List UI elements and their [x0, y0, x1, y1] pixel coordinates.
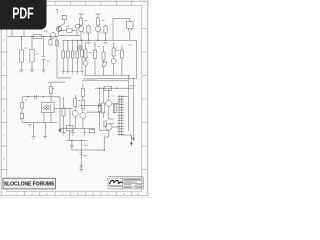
wire: main input bus	[8, 36, 51, 38]
resistor R15	[120, 46, 123, 75]
ground (harness 2)	[66, 72, 69, 75]
power flag (above stage 1)	[56, 10, 58, 14]
frame outer border	[1, 1, 147, 195]
diode D4 (harness line 4)	[76, 42, 79, 72]
svg-text:SLOCLONE FORUMS: SLOCLONE FORUMS	[4, 182, 55, 188]
wire: upper coupling run	[59, 31, 78, 36]
title block text lines	[110, 179, 143, 188]
resistor R23 (right of tubes)	[113, 105, 116, 113]
capacitor C7 (tick under bottom run)	[28, 125, 31, 126]
capacitor C9 (on x81 drop)	[80, 153, 83, 155]
ground (x60 bottom arrow)	[59, 130, 62, 133]
capacitor C5 (below h-run 1)	[70, 145, 73, 147]
node A (junction dots on input bus)	[21, 36, 44, 37]
wire: top rail stub branch1	[80, 14, 82, 18]
wire: right-low header	[95, 87, 134, 89]
ground (harness 4)	[76, 72, 79, 75]
frame zone ticks right	[142, 29, 148, 170]
wire: main bus continues	[50, 36, 80, 37]
svg-text:PDF: PDF	[12, 6, 34, 23]
frame zone ticks bottom	[25, 192, 132, 196]
tube V3 (power triode upper)	[106, 88, 112, 119]
label row (faint pot names)	[48, 78, 135, 86]
resistor R10 (harness line 5)	[81, 42, 84, 72]
relay K1 (box with coil circle)	[42, 103, 55, 113]
wire: inverter tail drop	[104, 137, 109, 150]
tube V4 (power triode lower)	[106, 124, 112, 137]
node E (junctions lower h-run)	[71, 140, 82, 141]
resistor R20 (lower center feed)	[74, 95, 77, 111]
resistor R25 (inverter tail)	[104, 121, 107, 127]
wire: stage-2 bottom bus	[76, 31, 137, 79]
capacitor C3 (small box above right)	[76, 25, 80, 28]
capacitor C8 (box on lower bus)	[67, 125, 74, 140]
resistor R22 (left of tubes)	[102, 88, 105, 118]
resistor R4 (inline on upper run)	[67, 29, 73, 33]
capacitor C4 (on low-left header)	[35, 95, 37, 99]
resistor R6 (vertical, branch2)	[87, 25, 90, 41]
ground (harness 3)	[71, 72, 74, 75]
node G (tail junction)	[104, 149, 105, 150]
frame zone ticks top	[25, 1, 132, 5]
ground (under R2)	[19, 70, 24, 73]
wire: harness top header	[63, 40, 82, 42]
ground (drop 2)	[43, 137, 47, 140]
ground (harness 1)	[62, 72, 65, 75]
wire: top rail stub branch3	[97, 14, 99, 18]
resistor R9 (small box top of harness column)	[56, 40, 59, 46]
diode D3 (harness line 3)	[71, 42, 74, 72]
resistor R1 (inline on input bus)	[34, 35, 42, 39]
wire: section header line	[82, 80, 129, 82]
resistor R8 (vertical, branch4)	[104, 25, 107, 41]
wire: transformer secondary top	[122, 95, 129, 97]
wire: top rail 2	[96, 13, 101, 15]
transistor Q3	[78, 26, 84, 40]
resistor R18 (feed into relay box)	[50, 83, 53, 103]
transistor Q6	[111, 59, 116, 64]
wire: lower center column 2	[69, 110, 71, 129]
ground (lower bus 3)	[83, 133, 87, 136]
power flag (R12 top)	[94, 43, 96, 44]
ground (under R3)	[30, 70, 35, 73]
node D (junction right-low)	[99, 88, 117, 89]
wire: right long drop	[133, 88, 135, 138]
resistor R7 (vertical)	[96, 18, 99, 27]
capacitor C2 (top of riser)	[62, 16, 67, 20]
capacitor C11 (small box below-left of Q2)	[49, 37, 52, 46]
wire: stub below lower bus 2	[72, 129, 74, 133]
resistor R21	[81, 96, 84, 112]
connector J1 (top-right small box)	[113, 19, 133, 41]
node C (junctions low-left)	[27, 96, 43, 97]
power flag (R14 top)	[113, 43, 115, 44]
wire: mid bottom bus 2	[88, 78, 137, 80]
svg-text:E: E	[3, 109, 5, 113]
transistor Q4	[95, 26, 101, 40]
wire: mid bottom bus 1	[84, 74, 130, 76]
wire: riser under badge 1	[11, 30, 13, 37]
wire: riser under badge 2	[23, 30, 25, 37]
transistor Q5	[83, 61, 88, 66]
sheet label box (bottom-left)	[3, 178, 55, 189]
wire: drop below run 1	[33, 122, 35, 136]
wire: transformer secondary bottom	[122, 135, 132, 143]
svg-text:B: B	[3, 38, 5, 42]
frame zone digits bottom	[15, 192, 139, 196]
wire: inverter bottom link	[100, 129, 109, 131]
svg-text:C: C	[3, 62, 5, 66]
frame zone letters left	[3, 14, 5, 184]
tube V1 (triode a)	[72, 109, 78, 129]
wire: low-left bottom run	[22, 121, 57, 123]
ground (under C1)	[41, 70, 46, 73]
wire: lower bus	[60, 128, 95, 130]
node F (inverter input junctions)	[99, 105, 100, 113]
ground (right drop arrow)	[132, 138, 134, 140]
ground (lower bus 1)	[62, 133, 66, 136]
wire: top rail 1	[79, 13, 85, 15]
resistor R2 (vertical, left column)	[20, 37, 24, 71]
lamp DS1	[78, 45, 82, 49]
wire: stub below lower bus 1	[63, 129, 65, 133]
capacitor C6 (bias, below bus)	[89, 129, 95, 133]
frame inner border	[7, 5, 142, 191]
title block (bottom-right)	[108, 177, 144, 189]
wire: stub below lower bus 3	[84, 129, 86, 133]
wire: tube links to transformer	[109, 104, 119, 128]
wire: lower h-run 2	[72, 149, 104, 151]
svg-text:D: D	[3, 86, 5, 90]
page background	[0, 0, 149, 198]
wire: lower h-run 1	[66, 139, 87, 141]
frame zone ticks left	[1, 29, 7, 170]
ground (below stage-2 bus at x105.5)	[104, 43, 108, 45]
node B (junctions on stage-2 bus)	[80, 40, 106, 41]
wire: mid-right feed column	[85, 42, 87, 75]
resistor R13	[102, 46, 105, 75]
svg-text:G: G	[3, 157, 5, 161]
wire: relay bottom stubs	[44, 113, 51, 123]
diode D1 (harness line 1)	[62, 42, 65, 72]
ground (drop 1)	[32, 137, 36, 140]
wire: low-left header	[22, 96, 60, 98]
transistor Q2 (envelope + arrow marks)	[56, 26, 61, 31]
resistor R3 (vertical, second column)	[30, 37, 34, 71]
wire: right drop to lower block	[129, 75, 134, 131]
logo (title block)	[110, 180, 123, 184]
transformer T1 (primary/secondary rails with rungs)	[117, 95, 124, 136]
resistor R19	[62, 108, 65, 116]
resistor R16 (left low column upper)	[21, 97, 24, 114]
wire: relay output to right	[54, 108, 73, 110]
ground (lower bus 2)	[71, 133, 75, 136]
resistor R17 (left low column lower)	[21, 114, 24, 123]
resistor R21a (upper)	[81, 84, 84, 96]
diode D2 (harness line 2)	[67, 42, 70, 72]
ground (below stage-2 bus at x88.5)	[87, 43, 91, 45]
ground (harness 5)	[80, 72, 83, 75]
wire: drop below run 2	[44, 122, 46, 136]
tube V2 (triode b)	[80, 113, 86, 129]
resistor R11	[84, 49, 87, 58]
wire: C5 column	[71, 140, 73, 150]
wire: harness left column	[56, 37, 58, 79]
capacitor C10 (on x81 drop lower)	[80, 166, 83, 168]
resistor R14	[112, 44, 115, 75]
capacitor C1 (vertical, third column)	[42, 37, 46, 71]
wire: lower center column 1	[63, 97, 65, 129]
wire: stage-1 collector riser	[59, 20, 65, 36]
diode D6 (inline box on right-low header)	[104, 86, 112, 90]
value labels (scattered tiny component designators)	[25, 20, 132, 107]
resistor R5 (vertical)	[79, 18, 82, 27]
diode D5	[102, 62, 107, 67]
value label (diode row)	[58, 77, 71, 78]
resistor R12	[94, 44, 97, 75]
PDF badge	[0, 0, 47, 30]
value label (lower)	[83, 145, 88, 156]
ground (secondary arrow)	[130, 143, 132, 145]
resistor R24 (screen divider)	[98, 88, 101, 130]
wire: inverter input links	[79, 106, 100, 113]
ground (x81 bottom)	[79, 170, 83, 172]
transistor Q1	[50, 33, 56, 39]
wire: x81 drop	[80, 140, 82, 169]
wire: lower bus drop left	[57, 97, 60, 130]
